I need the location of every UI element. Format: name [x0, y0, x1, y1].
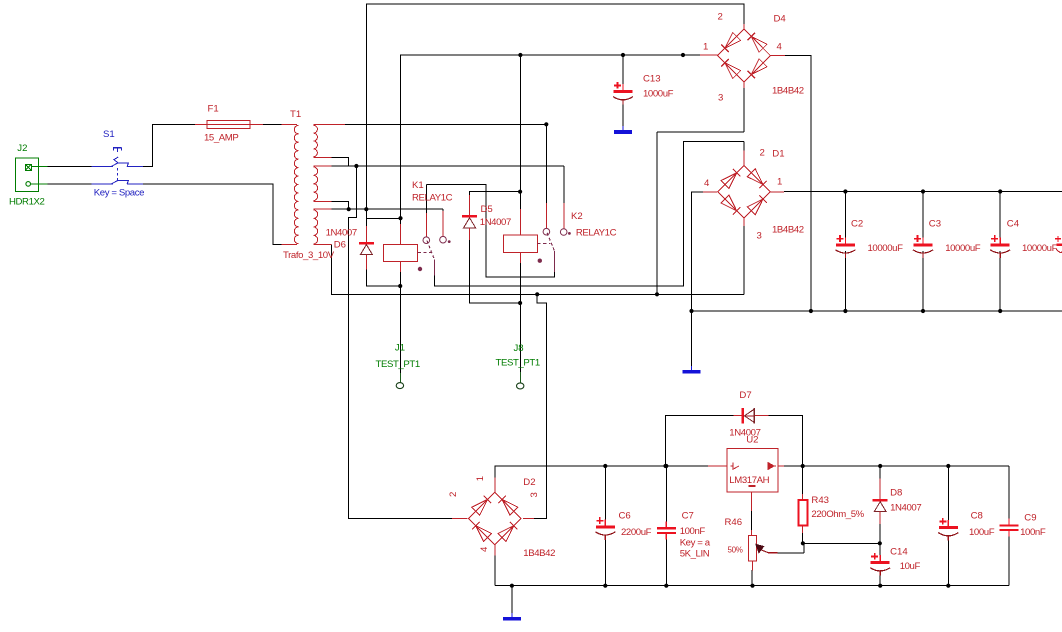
svg-text:220Ohm_5%: 220Ohm_5% [811, 509, 864, 520]
svg-text:J1: J1 [395, 343, 405, 354]
svg-text:4: 4 [704, 178, 710, 189]
svg-text:C3: C3 [929, 219, 941, 230]
svg-text:1: 1 [703, 42, 708, 53]
svg-text:R43: R43 [811, 495, 829, 506]
svg-text:5K_LIN: 5K_LIN [680, 549, 710, 560]
svg-text:C13: C13 [643, 74, 661, 85]
svg-text:Trafo_3_10V: Trafo_3_10V [283, 250, 335, 261]
svg-text:3: 3 [718, 93, 723, 104]
svg-text:F1: F1 [208, 104, 219, 115]
svg-text:Key = Space: Key = Space [94, 188, 144, 199]
svg-text:D6: D6 [334, 240, 346, 251]
svg-text:10uF: 10uF [900, 561, 921, 572]
svg-text:K2: K2 [571, 211, 583, 222]
svg-text:2: 2 [760, 148, 765, 159]
svg-text:10000uF: 10000uF [868, 243, 904, 254]
svg-text:C4: C4 [1007, 219, 1020, 230]
svg-text:1: 1 [475, 476, 486, 481]
svg-text:TEST_PT1: TEST_PT1 [496, 358, 540, 369]
svg-text:1B4B42: 1B4B42 [772, 86, 804, 97]
svg-text:D5: D5 [481, 204, 493, 215]
svg-text:100uF: 100uF [969, 527, 995, 538]
svg-text:RELAY1C: RELAY1C [412, 193, 453, 204]
svg-text:10000uF: 10000uF [1022, 243, 1058, 254]
svg-text:K1: K1 [412, 180, 424, 191]
svg-text:3: 3 [529, 492, 540, 497]
svg-text:1000uF: 1000uF [643, 89, 674, 100]
svg-text:2: 2 [718, 12, 723, 23]
svg-text:1B4B42: 1B4B42 [523, 548, 555, 559]
svg-text:R46: R46 [725, 517, 743, 528]
svg-text:RELAY1C: RELAY1C [576, 228, 617, 239]
svg-text:C8: C8 [971, 511, 983, 522]
svg-text:C9: C9 [1024, 513, 1036, 524]
svg-text:1N4007: 1N4007 [326, 228, 357, 239]
svg-text:C7: C7 [682, 511, 694, 522]
svg-text:T1: T1 [290, 109, 301, 120]
svg-text:C14: C14 [890, 546, 908, 557]
svg-text:D2: D2 [523, 477, 535, 488]
svg-text:1N4007: 1N4007 [890, 502, 921, 513]
svg-text:4: 4 [777, 42, 783, 53]
svg-text:100nF: 100nF [1020, 527, 1046, 538]
svg-text:4: 4 [479, 546, 490, 552]
svg-text:1B4B42: 1B4B42 [772, 225, 804, 236]
svg-text:1: 1 [777, 177, 782, 188]
svg-text:100nF: 100nF [680, 526, 706, 537]
svg-text:D7: D7 [739, 390, 751, 401]
svg-text:15_AMP: 15_AMP [204, 133, 238, 144]
svg-text:D1: D1 [772, 149, 784, 160]
svg-text:HDR1X2: HDR1X2 [9, 197, 45, 208]
svg-text:TEST_PT1: TEST_PT1 [376, 359, 420, 370]
svg-text:2: 2 [448, 492, 459, 497]
svg-text:C6: C6 [619, 511, 631, 522]
svg-text:3: 3 [757, 231, 762, 242]
svg-text:J2: J2 [17, 143, 27, 154]
svg-text:D8: D8 [890, 487, 902, 498]
svg-text:2200uF: 2200uF [621, 527, 652, 538]
svg-text:10000uF: 10000uF [945, 243, 981, 254]
svg-text:1N4007: 1N4007 [480, 217, 511, 228]
svg-text:C2: C2 [851, 219, 863, 230]
svg-text:50%: 50% [728, 546, 743, 555]
svg-text:Key = a: Key = a [680, 538, 711, 549]
svg-text:S1: S1 [103, 129, 115, 140]
svg-text:D4: D4 [774, 14, 787, 25]
svg-text:U2: U2 [746, 435, 758, 446]
svg-text:LM317AH: LM317AH [729, 475, 769, 486]
svg-text:J8: J8 [514, 343, 524, 354]
